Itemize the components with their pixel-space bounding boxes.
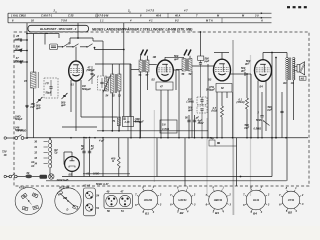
svg-text:B4: B4 — [260, 85, 264, 89]
tube B3 — [214, 59, 231, 81]
svg-text:μF: μF — [90, 147, 95, 151]
wire grid line y64 — [95, 63, 131, 65]
dial band tick 3 — [96, 13, 98, 18]
tube socket B1 bottom view — [138, 190, 158, 210]
wire y38 segment — [70, 37, 93, 39]
IFT2 symbol marks — [184, 50, 187, 56]
svg-text:350V: 350V — [198, 121, 204, 125]
tube B3 leads — [216, 92, 218, 138]
svg-text:40: 40 — [106, 190, 110, 194]
trimmer 500pF below coil — [37, 97, 43, 103]
box at x200.5 — [198, 56, 204, 60]
wire bar above B3 — [214, 52, 229, 54]
dial band tick 2 — [129, 11, 131, 13]
wire drop from dial at x123.8 — [123, 23, 125, 50]
wires osc pack — [102, 41, 104, 76]
svg-text:(kΩ): (kΩ) — [212, 109, 217, 113]
svg-text:B5: B5 — [288, 211, 292, 215]
wire to second contact — [80, 46, 87, 48]
IFT2 core — [186, 59, 188, 72]
svg-text:C 55: C 55 — [68, 14, 74, 18]
svg-text:μμF: μμF — [267, 108, 273, 112]
dial band tick 1 — [55, 11, 57, 13]
potentiometer wiper arrow — [263, 121, 270, 126]
svg-text:47: 47 — [159, 85, 163, 89]
socket plate S1 — [15, 187, 42, 214]
capacitor C1 25pF at left border — [14, 39, 27, 41]
svg-text:D: D — [67, 208, 69, 212]
resistor 400ohm zigzag — [118, 138, 120, 157]
svg-text:(5M)μF: (5M)μF — [87, 68, 96, 72]
svg-text:4.7kΩ: 4.7kΩ — [161, 127, 169, 131]
tube socket B2 bottom view — [173, 191, 192, 210]
dropper block — [40, 175, 48, 179]
output transformer core — [289, 58, 291, 81]
svg-text:A4: A4 — [30, 160, 35, 164]
svg-text:47: 47 — [120, 190, 124, 194]
svg-text:(47kΩ): (47kΩ) — [236, 100, 244, 104]
tube socket B4 bottom view — [246, 190, 266, 210]
svg-text:44: 44 — [33, 205, 37, 209]
svg-text:μμF: μμF — [240, 69, 246, 73]
svg-text:3 0: 3 0 — [255, 14, 259, 18]
socket plate S2 — [55, 188, 81, 214]
wire x185 down — [184, 138, 186, 186]
tube B2 leads — [160, 90, 162, 138]
svg-text:Ω): Ω) — [54, 151, 58, 155]
dashed box osc padder — [98, 76, 107, 90]
svg-text:μμF: μμF — [187, 108, 193, 112]
hm box — [300, 76, 307, 80]
svg-text:50μF: 50μF — [46, 91, 52, 95]
svg-text:A1: A1 — [85, 172, 90, 176]
mains switch pole 1 — [15, 137, 18, 140]
tube socket B5 bottom view — [282, 191, 300, 209]
svg-text:500V: 500V — [256, 118, 262, 122]
box resistor network — [160, 120, 177, 133]
svg-text:1 0-7-5-0-M: 1 0-7-5-0-M — [95, 14, 109, 18]
output transformer primary — [287, 58, 288, 81]
IFT2 leads — [189, 56, 191, 59]
resistor 0.1M dashed pair boxes — [197, 97, 207, 105]
svg-text:50μ: 50μ — [210, 136, 215, 140]
svg-text:UL41: UL41 — [253, 198, 260, 202]
svg-text:M 7 A: M 7 A — [206, 19, 213, 23]
wire x33.5 with antenna coil — [27, 33, 48, 35]
svg-text:B3: B3 — [215, 211, 219, 215]
chassis dashed frame — [14, 32, 309, 186]
switch contact S1a — [62, 46, 64, 48]
coil J1 — [117, 117, 120, 126]
svg-text:μμF: μμF — [204, 59, 210, 63]
resistor 0.1/47k zigzag — [246, 74, 248, 98]
svg-text:220V 6-45: 220V 6-45 — [56, 178, 69, 182]
svg-text:J6 500Ω: J6 500Ω — [17, 129, 27, 133]
IFT2 primary coil 58 — [182, 59, 186, 72]
svg-text:0.5MΩ: 0.5MΩ — [254, 127, 262, 131]
dial band tick 5 — [221, 18, 223, 23]
svg-text:40 A: 40 A — [174, 14, 180, 18]
svg-text:3 4 7 5: 3 4 7 5 — [146, 9, 154, 13]
wire x130 — [129, 64, 131, 117]
bus y127 left — [62, 126, 97, 128]
svg-text:500μF: 500μF — [15, 117, 23, 121]
switch contact S1b — [72, 46, 74, 48]
filter caps 50uF — [83, 139, 85, 177]
dial band line C — [8, 22, 272, 24]
box under B3 — [216, 84, 232, 93]
svg-text:48: 48 — [22, 194, 26, 198]
output transformer secondary — [294, 58, 295, 81]
wire drop from dial at x78 — [77, 23, 79, 38]
wire drop x200.5 from frame top — [200, 32, 202, 56]
svg-text:UY41: UY41 — [288, 198, 295, 202]
tube B2 anode line to IFT2 — [165, 56, 184, 58]
wire x282 — [281, 92, 283, 138]
svg-text:4Ω: 4Ω — [282, 81, 286, 85]
svg-text:40-6: 40-6 — [155, 14, 162, 18]
svg-text:μF: μF — [80, 147, 85, 151]
svg-text:μμF: μμF — [60, 103, 66, 107]
IFT1 leads — [140, 56, 142, 60]
tube socket B3 bottom view — [209, 191, 228, 210]
main bus y137.7 — [27, 137, 308, 139]
svg-text:A3: A3 — [30, 164, 35, 168]
tube B1 bottom leads — [70, 80, 72, 112]
svg-text:56 57 58: 56 57 58 — [59, 186, 69, 190]
svg-text:μμF: μμF — [14, 37, 20, 41]
short heater line near B5 — [83, 173, 130, 175]
svg-text:4 7: 4 7 — [183, 9, 188, 13]
bus y180.8 — [46, 180, 287, 182]
svg-text:5.6: 5.6 — [162, 122, 166, 126]
svg-text:4 μF: 4 μF — [98, 139, 105, 143]
osc coil L52 — [111, 74, 115, 93]
svg-text:μμF: μμF — [173, 57, 179, 61]
wire y41 step — [93, 40, 103, 42]
svg-text:μμF: μμF — [244, 126, 250, 130]
dial band line A — [8, 12, 272, 14]
svg-text:8-2: 8-2 — [175, 19, 179, 23]
capacitor 500pF below box — [199, 62, 202, 64]
resistor 4.7k zigzag — [221, 92, 223, 106]
svg-text:μμF: μμF — [244, 62, 250, 66]
svg-text:μμF: μμF — [30, 105, 36, 109]
wire x128 down — [127, 138, 129, 177]
dial band small squares top right — [287, 6, 290, 8]
IFT1 core — [143, 60, 145, 72]
dashed box with cap (1) 50uF — [44, 78, 58, 98]
small box at 209 — [209, 140, 215, 146]
box 2.48 — [123, 117, 134, 127]
svg-text:500μμF: 500μμF — [206, 88, 215, 92]
speaker — [297, 65, 300, 73]
svg-text:B3: B3 — [208, 78, 212, 82]
capacitor 500pF on x282 — [280, 110, 283, 112]
wire grid feed y49.5 — [95, 49, 124, 51]
svg-text:B2: B2 — [180, 211, 184, 215]
capacitor 47pF right of B1 — [91, 72, 94, 74]
tube B2 — [157, 60, 174, 81]
fold artifact lines — [232, 40, 234, 215]
svg-text:1 1: 1 1 — [100, 19, 104, 23]
wire x157 down — [156, 138, 158, 177]
svg-text:7-5-8: 7-5-8 — [61, 19, 68, 23]
osc coil with core arrow — [105, 77, 109, 91]
svg-text:NEUES LANDESEMPFÄNGER 2 STELLI: NEUES LANDESEMPFÄNGER 2 STELLINGEN: LB-M… — [92, 28, 192, 32]
svg-text:(1): (1) — [46, 81, 49, 85]
trimmer under B1 — [62, 93, 68, 99]
wire x272 — [271, 53, 273, 177]
crystal box — [50, 44, 58, 50]
svg-text:A: A — [260, 19, 263, 23]
IFT2 secondary coil 59 — [189, 59, 193, 72]
wire x232.5 — [232, 92, 234, 138]
capacitor 500pF right of B3 — [231, 73, 244, 75]
title box — [28, 25, 89, 32]
dial band left bracket — [7, 13, 9, 23]
corner wires bottom right — [240, 176, 242, 178]
svg-text:UBC41: UBC41 — [214, 198, 223, 202]
fuse — [25, 175, 32, 179]
svg-text:500μμF: 500μμF — [82, 87, 91, 91]
svg-text:BLAUPUNKT · W543 GWK · 2: BLAUPUNKT · W543 GWK · 2 — [40, 27, 77, 31]
svg-text:100Ω: 100Ω — [93, 172, 99, 176]
svg-text:A2 A3: A2 A3 — [82, 184, 91, 188]
tuning gang — [104, 194, 132, 209]
IFT1 primary coil 56 — [139, 60, 143, 72]
svg-text:41 42: 41 42 — [18, 185, 26, 189]
wire antenna left vertical x27 — [26, 34, 28, 139]
trimmer right of B1 — [89, 75, 96, 82]
svg-text:250μμF: 250μμF — [14, 59, 24, 63]
svg-text:UCH41: UCH41 — [144, 198, 153, 202]
bus y130.8 — [97, 130, 208, 132]
svg-text:B1: B1 — [145, 212, 149, 216]
wire drop from dial at x27 — [26, 23, 28, 34]
wire contact segment — [66, 46, 73, 48]
mains terminal bottom — [4, 175, 6, 177]
svg-text:(1MΩ): (1MΩ) — [187, 100, 194, 104]
wire top loop — [45, 33, 59, 35]
wires around J1 box — [81, 116, 117, 118]
antenna coil L15 — [31, 72, 37, 88]
tube B4 leads — [257, 81, 259, 138]
tube B1 — [69, 61, 84, 81]
svg-text:500Ω A-47: 500Ω A-47 — [96, 182, 109, 186]
svg-text:UAF41: UAF41 — [178, 198, 187, 202]
capacitor C3 47/250pF at left border — [14, 61, 27, 63]
switch contact S1c — [86, 46, 88, 48]
wire from box — [58, 46, 63, 48]
svg-text:μμF: μμF — [35, 106, 41, 110]
pilot lamp — [49, 174, 54, 179]
dial band line B — [8, 17, 272, 19]
electrolytic 50uF pair — [188, 115, 190, 138]
dropper resistor wavy — [49, 138, 51, 140]
svg-text:hΩ: hΩ — [301, 76, 305, 80]
capacitor 0.1 near x262 — [261, 92, 263, 115]
wire x123.8 lower — [123, 50, 125, 117]
svg-text:Ω: Ω — [111, 159, 114, 163]
osc coil L53 — [118, 74, 122, 91]
svg-text:C M 6-7-1: C M 6-7-1 — [41, 14, 53, 18]
svg-text:4 1: 4 1 — [148, 19, 153, 23]
output transformer top lead — [275, 58, 277, 138]
connector strip — [83, 188, 95, 216]
mains switch pole 2 — [9, 175, 12, 178]
svg-text:1 KAL CM10: 1 KAL CM10 — [11, 14, 26, 18]
svg-text:B4: B4 — [253, 212, 257, 216]
svg-text:2.48: 2.48 — [124, 120, 131, 124]
capacitor C2 500/50pF at left border — [14, 50, 27, 52]
tube B4 — [255, 60, 272, 82]
IFT1 secondary coil 57 — [146, 60, 150, 72]
mains terminal top — [4, 137, 6, 139]
svg-text:50μμF: 50μμF — [15, 47, 23, 51]
box under B2 — [156, 82, 173, 90]
rectifier tube B5 — [65, 157, 80, 172]
svg-text:45: 45 — [23, 206, 27, 210]
dropper taps — [44, 141, 48, 143]
tube B5 bottom lead — [71, 171, 73, 176]
wire segment y146 — [215, 145, 237, 147]
IFT1 symbol marks — [141, 50, 144, 56]
tube B4 anode line to transformer — [263, 52, 287, 54]
svg-text:B2: B2 — [152, 78, 156, 82]
bus y176.5 — [62, 176, 272, 178]
wire x208 down — [207, 64, 209, 138]
capacitor 150pF on x27 — [25, 104, 28, 106]
dial band tick 4 — [167, 13, 169, 18]
wire x236 down — [236, 138, 238, 186]
